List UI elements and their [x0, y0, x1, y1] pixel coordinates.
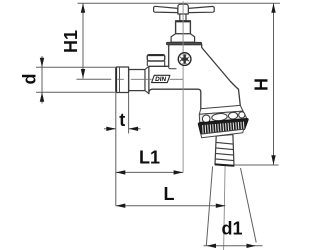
dimension L: left arrow — [116, 204, 126, 208]
ball ring ellipse 2 — [228, 112, 238, 119]
swivel ball ring band — [199, 111, 247, 122]
dimension t: left arrow (points right) — [106, 127, 116, 131]
top extension line (top of handle) — [78, 2, 281, 4]
dimension H1: line — [82, 3, 84, 78]
valve vertical centerline — [182, 1, 184, 172]
emblem inner disk — [180, 54, 190, 64]
DIN flag — [152, 75, 170, 82]
inlet pipe axis centerline dash 3 — [170, 78, 184, 80]
dimension H: bottom arrow — [271, 155, 275, 165]
faucet right wing of handle — [188, 6, 214, 12]
dimension H: top arrow — [271, 3, 275, 13]
faucet body silhouette — [149, 45, 241, 110]
cap left face emphasis — [115, 68, 117, 92]
barb tip face — [215, 164, 234, 165]
faucet bonnet shoulder band — [166, 42, 201, 45]
dimension d: bottom extension line — [36, 91, 116, 93]
knurl stripes — [203, 122, 244, 134]
cap inner thread line — [119, 67, 121, 92]
dimension t: right arrow (points left) — [129, 127, 139, 131]
faucet gland nut — [171, 34, 195, 42]
tab pedestal left — [146, 61, 148, 66]
svg-text:DIN: DIN — [155, 76, 167, 83]
dimension t: right segment — [129, 128, 141, 130]
bonnet interior edge — [169, 66, 177, 69]
left extension line (inlet face, for t / L1 / L) — [115, 93, 117, 206]
outlet flange band — [199, 105, 243, 114]
faucet packing block — [176, 21, 191, 34]
svg-text:t: t — [119, 110, 125, 130]
tab top edge emphasis — [148, 54, 164, 56]
faucet top tab boss — [147, 55, 164, 61]
dimension L1: line — [116, 171, 183, 173]
emblem outer circle — [178, 53, 191, 66]
dimension d: top arrow (points down) — [40, 58, 44, 67]
dimension H1: bottom arrow — [81, 69, 85, 79]
dimension d1: right arrow — [247, 244, 257, 248]
dimension H: line — [273, 3, 275, 165]
svg-text:H: H — [252, 78, 272, 91]
t right extension line — [128, 93, 130, 134]
nut bottom chamfer strip — [201, 129, 244, 138]
svg-text:H1: H1 — [61, 30, 81, 53]
svg-text:d1: d1 — [221, 218, 242, 238]
dimension d1: line — [204, 245, 263, 247]
H bottom tick — [234, 164, 279, 166]
dimension d1: left arrow — [207, 244, 217, 248]
H1 bottom tick (inlet axis) — [77, 78, 112, 80]
inlet pipe axis centerline dash 1 — [118, 78, 124, 80]
tab pedestal right — [164, 61, 166, 66]
dimension L: right arrow — [216, 204, 226, 208]
hose axis line — [224, 136, 226, 250]
svg-text:L1: L1 — [139, 147, 160, 167]
dimension L: line — [116, 205, 226, 207]
barb rib 4 — [215, 159, 234, 161]
barb rib 2 — [216, 148, 234, 150]
svg-text:L: L — [164, 184, 175, 204]
emblem white cutouts — [179, 55, 190, 63]
faucet handle stem — [180, 13, 186, 22]
faucet inlet chamfer — [145, 66, 149, 93]
hose barb — [215, 135, 234, 166]
faucet inlet pipe — [129, 70, 145, 91]
d1 right extension line — [241, 168, 257, 243]
dimension d: bottom arrow (points up) — [40, 92, 44, 102]
barb rib 3 — [215, 153, 233, 155]
dimension d: vertical line — [41, 56, 43, 104]
barb rib 1 — [216, 142, 233, 144]
wire: faucet left wing of handle — [154, 6, 178, 12]
dimension L1: left arrow — [116, 170, 126, 174]
inlet pipe axis centerline dash 2 — [131, 78, 152, 80]
faucet threaded cap — [116, 67, 129, 93]
ball ring circle right — [239, 112, 245, 118]
dimension d: top extension line — [36, 66, 116, 68]
dimension H1: top arrow — [81, 3, 85, 13]
faucet handle hub dome — [178, 4, 188, 14]
ball ring ellipse 1 — [212, 113, 228, 121]
knurled nut — [198, 118, 248, 134]
block top edge emphasis — [176, 21, 190, 23]
dimension t: left segment — [104, 128, 116, 130]
svg-text:d: d — [20, 74, 40, 85]
ball ring circle left — [202, 115, 210, 123]
dimension L1: right arrow — [174, 170, 184, 174]
d1 left extension line — [206, 167, 212, 247]
